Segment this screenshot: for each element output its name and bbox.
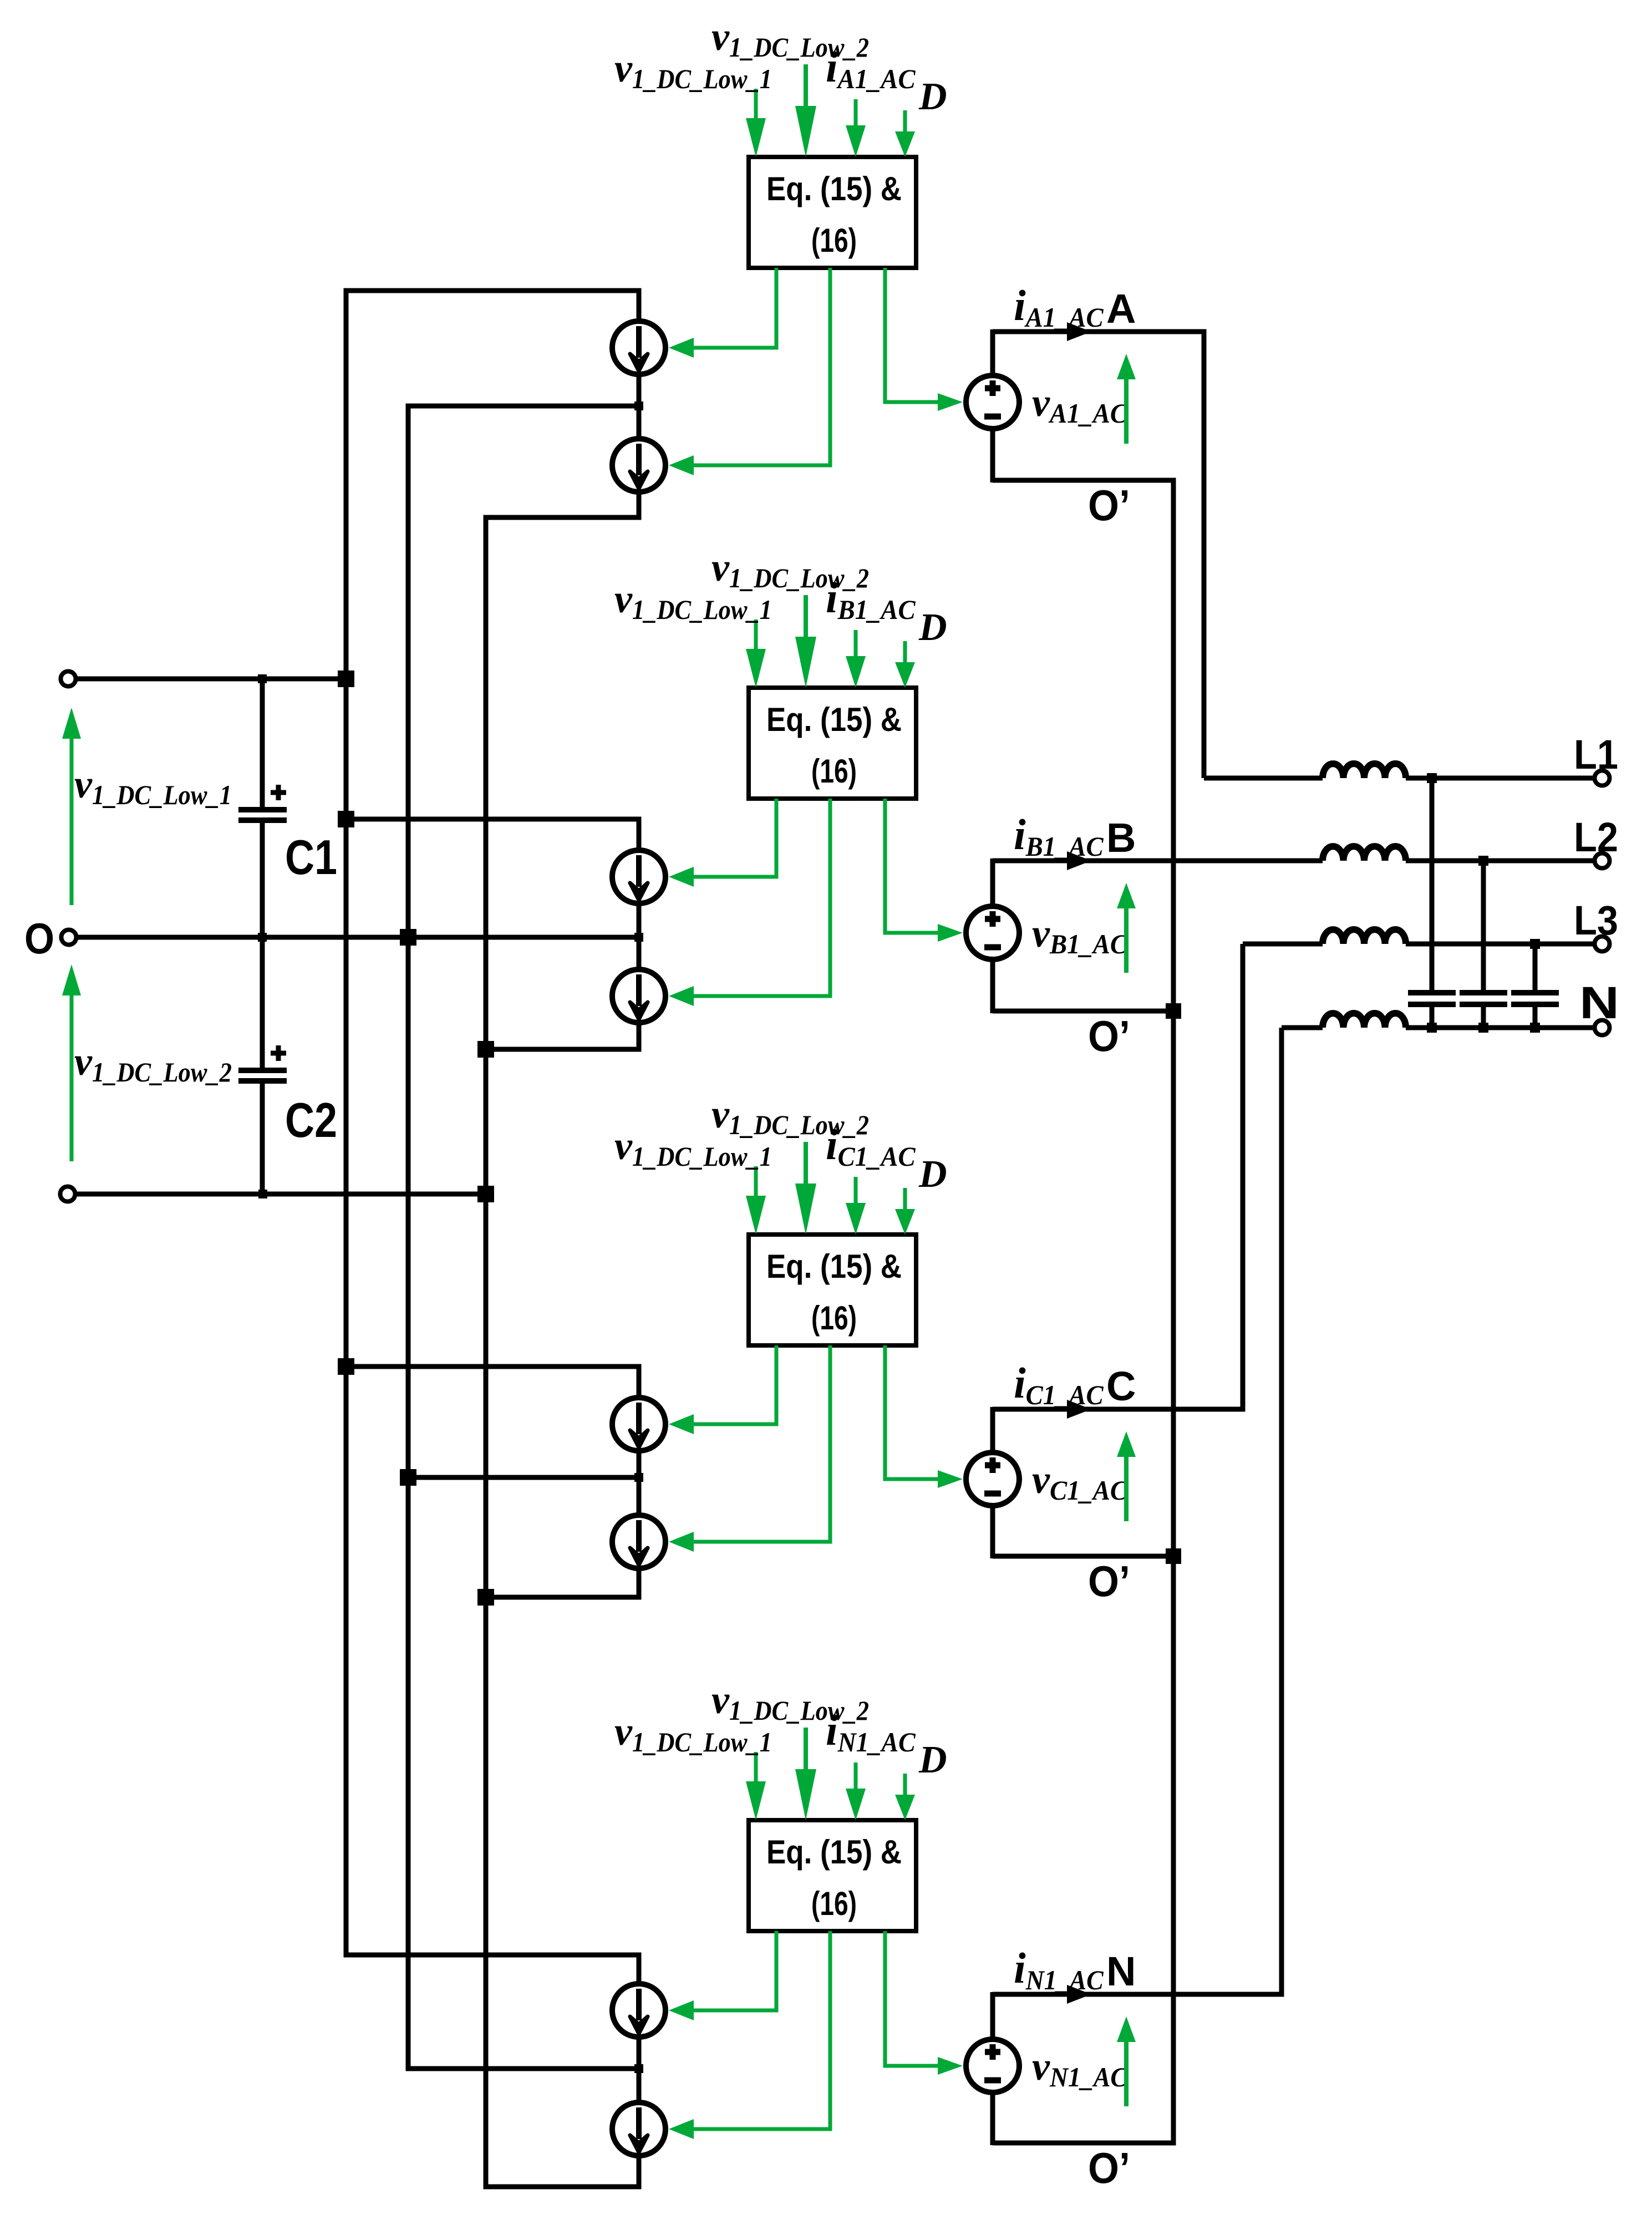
junction DC+ rail / bus bbox=[338, 670, 354, 687]
wire corner patches bbox=[344, 288, 349, 293]
junction DC+ bus phase C bbox=[338, 1358, 354, 1375]
input v_1_DC_Low_2 arrow phase B bbox=[804, 595, 808, 643]
wire phase C output to L3 bbox=[993, 944, 1243, 1409]
svg-text:L2: L2 bbox=[1574, 814, 1618, 860]
svg-text:C2: C2 bbox=[285, 1093, 337, 1147]
wire CS mid phase C bbox=[408, 1451, 639, 1515]
arrow v_1_DC_Low_1 (DC link) bbox=[70, 739, 74, 905]
wire O rail bbox=[76, 935, 639, 940]
svg-text:D: D bbox=[918, 606, 947, 649]
svg-text:(16): (16) bbox=[811, 222, 857, 259]
wire L1 row bbox=[1204, 776, 1594, 781]
svg-text:L3: L3 bbox=[1574, 897, 1618, 943]
arrow v_1_DC_Low_2 (DC link) bbox=[70, 995, 74, 1161]
svg-text:L1: L1 bbox=[1574, 732, 1618, 778]
filter capacitor 3 bbox=[1511, 944, 1559, 1028]
wire CS mid phase N bbox=[408, 2037, 639, 2102]
junction O' phase B bbox=[1166, 1003, 1181, 1019]
input i_C1_AC arrow phase C bbox=[854, 1177, 858, 1208]
green arrow v_A1_AC phase A bbox=[1124, 379, 1129, 444]
wire CS top phase C bbox=[346, 1367, 639, 1398]
current source CS1 phase C bbox=[612, 1398, 665, 1451]
inductor N bbox=[1323, 1013, 1406, 1028]
terminal DC+ bbox=[61, 672, 76, 687]
green wire to CS1 phase C bbox=[693, 1345, 776, 1424]
filter capacitor 2 bbox=[1460, 861, 1507, 1028]
current arrow i_N1_AC phase N bbox=[1067, 1985, 1091, 2004]
junction CS mid phase A bbox=[634, 402, 643, 410]
svg-text:N: N bbox=[1106, 1948, 1136, 1994]
green wire to VS phase A bbox=[885, 268, 938, 402]
wire VS bottom stub phase B bbox=[990, 958, 995, 1013]
wire VS top stub phase A bbox=[990, 329, 995, 377]
current source CS1 phase A bbox=[612, 321, 665, 374]
wire DC- rail bbox=[75, 1192, 486, 1197]
wire CS bottom phase N bbox=[486, 2156, 639, 2187]
junction DC- bus phase C bbox=[477, 1589, 494, 1606]
input i_B1_AC arrow phase B bbox=[854, 630, 858, 661]
terminal O bbox=[62, 930, 77, 945]
wire O' bus bbox=[1171, 480, 1176, 2143]
terminal N bbox=[1595, 1020, 1610, 1035]
voltage source v_A1_AC phase A bbox=[966, 375, 1019, 429]
input v_1_DC_Low_1 arrow phase B bbox=[754, 619, 758, 654]
svg-text:Eq. (15) &: Eq. (15) & bbox=[766, 1833, 902, 1871]
current source CS1 phase N bbox=[612, 1984, 665, 2037]
wire phase B O' link bbox=[993, 1009, 1173, 1014]
junction DC- rail / C2 bbox=[258, 1190, 267, 1198]
input i_A1_AC arrow phase A bbox=[854, 99, 858, 130]
green arrow v_B1_AC phase B bbox=[1124, 908, 1129, 973]
green arrow v_C1_AC phase C bbox=[1124, 1457, 1129, 1521]
green wire to CS2 phase B bbox=[693, 799, 830, 996]
green wire to CS1 phase B bbox=[693, 799, 776, 877]
svg-text:N: N bbox=[1579, 978, 1619, 1028]
wire DC- bus bbox=[484, 517, 489, 2187]
junction N / filter cap 2 bbox=[1478, 1023, 1488, 1033]
svg-text:O: O bbox=[24, 914, 54, 963]
wire CS mid phase A bbox=[408, 374, 639, 439]
terminal L3 bbox=[1595, 937, 1610, 952]
green arrow v_N1_AC phase N bbox=[1124, 2042, 1129, 2106]
current arrow i_A1_AC phase A bbox=[1067, 322, 1091, 341]
input v_1_DC_Low_2 arrow phase C bbox=[804, 1142, 808, 1190]
junction O rail / O bus bbox=[400, 929, 416, 946]
svg-text:Eq. (15) &: Eq. (15) & bbox=[766, 701, 902, 738]
input v_1_DC_Low_1 arrow phase N bbox=[754, 1752, 758, 1787]
junction O rail / C1 C2 bbox=[258, 933, 267, 942]
Eq box phase B bbox=[749, 688, 916, 799]
wire N row bbox=[1282, 1025, 1594, 1030]
wire VS top stub phase N bbox=[990, 1992, 995, 2040]
junction DC+ bus phase B bbox=[338, 811, 354, 827]
svg-text:O’: O’ bbox=[1088, 1557, 1130, 1606]
wire CS bottom phase B bbox=[486, 1023, 639, 1049]
wire CS top phase A bbox=[346, 291, 639, 321]
terminal DC- bbox=[60, 1187, 75, 1202]
Eq box phase A bbox=[749, 157, 916, 268]
wire L2 row bbox=[1406, 859, 1594, 863]
junction N / filter cap 1 bbox=[1427, 1023, 1437, 1033]
input v_1_DC_Low_1 arrow phase A bbox=[754, 89, 758, 124]
green wire to CS2 phase A bbox=[693, 268, 830, 465]
svg-text:O’: O’ bbox=[1088, 1012, 1130, 1060]
junction CS mid phase B bbox=[634, 933, 643, 942]
junction L2 / filter cap 2 bbox=[1478, 856, 1488, 866]
current arrow i_C1_AC phase C bbox=[1067, 1400, 1091, 1419]
svg-text:B: B bbox=[1106, 815, 1136, 861]
current source CS2 phase N bbox=[612, 2102, 665, 2156]
wire phase B output (L2 row start) bbox=[993, 859, 1323, 863]
svg-text:Eq. (15) &: Eq. (15) & bbox=[766, 1248, 902, 1285]
voltage source v_C1_AC phase C bbox=[966, 1452, 1019, 1506]
junction CS mid phase N bbox=[634, 2064, 643, 2073]
svg-text:D: D bbox=[918, 1739, 947, 1781]
junction L3 / filter cap 3 bbox=[1530, 939, 1540, 949]
current source CS2 phase B bbox=[612, 969, 665, 1023]
terminal L2 bbox=[1595, 854, 1610, 868]
input D arrow phase A bbox=[903, 110, 907, 135]
wire L3 row bbox=[1243, 942, 1594, 947]
terminal L1 bbox=[1595, 771, 1610, 786]
svg-text:C: C bbox=[1106, 1363, 1136, 1409]
svg-text:Eq. (15) &: Eq. (15) & bbox=[766, 170, 902, 207]
inductor L3 bbox=[1323, 929, 1406, 944]
junction DC- rail / bus bbox=[477, 1186, 494, 1202]
junction L1 / filter cap 1 bbox=[1427, 773, 1437, 783]
junction O' phase C bbox=[1166, 1548, 1181, 1564]
wire phase N O' link bbox=[993, 2141, 1173, 2146]
filter capacitor 1 bbox=[1408, 778, 1456, 1028]
input v_1_DC_Low_2 arrow phase A bbox=[804, 64, 808, 113]
svg-text:(16): (16) bbox=[811, 753, 857, 790]
current source CS2 phase A bbox=[612, 439, 665, 492]
svg-text:A: A bbox=[1106, 286, 1136, 332]
wire DC+ bus bbox=[344, 291, 349, 1955]
green wire to VS phase C bbox=[885, 1345, 938, 1479]
junction O bus phase C bbox=[400, 1469, 416, 1486]
input D arrow phase N bbox=[903, 1774, 907, 1798]
current source CS2 phase C bbox=[612, 1515, 665, 1568]
capacitor C2 bbox=[238, 937, 287, 1194]
svg-text:C1: C1 bbox=[285, 830, 337, 885]
wire VS top stub phase B bbox=[990, 859, 995, 907]
wire CS top phase B bbox=[346, 819, 639, 850]
voltage source v_B1_AC phase B bbox=[966, 906, 1019, 959]
green wire to VS phase N bbox=[885, 1931, 938, 2066]
voltage source v_N1_AC phase N bbox=[966, 2039, 1019, 2092]
svg-text:(16): (16) bbox=[811, 1885, 857, 1922]
green wire to CS2 phase C bbox=[693, 1345, 830, 1542]
wire CS mid phase B bbox=[408, 903, 639, 969]
svg-text:(16): (16) bbox=[811, 1299, 857, 1337]
input v_1_DC_Low_1 arrow phase C bbox=[754, 1166, 758, 1201]
junction DC+ rail / C1 bbox=[258, 674, 267, 683]
wire VS top stub phase C bbox=[990, 1407, 995, 1454]
wire DC+ rail bbox=[75, 677, 346, 682]
input v_1_DC_Low_2 arrow phase N bbox=[804, 1728, 808, 1776]
input i_N1_AC arrow phase N bbox=[854, 1762, 858, 1794]
svg-text:D: D bbox=[918, 1153, 947, 1196]
wire phase A O' link bbox=[993, 478, 1173, 483]
Eq box phase N bbox=[749, 1820, 916, 1931]
wire phase A output to L1 bbox=[993, 332, 1204, 778]
green wire to CS1 phase A bbox=[693, 268, 776, 348]
wire VS bottom stub phase N bbox=[990, 2091, 995, 2145]
junction N / filter cap 3 bbox=[1530, 1023, 1540, 1033]
inductor L1 bbox=[1323, 764, 1406, 778]
wire phase C O' link bbox=[993, 1554, 1173, 1559]
input D arrow phase B bbox=[903, 641, 907, 666]
wire VS bottom stub phase C bbox=[990, 1505, 995, 1558]
wire O bus bbox=[406, 406, 411, 2069]
wire CS bottom phase C bbox=[486, 1568, 639, 1597]
green wire to CS2 phase N bbox=[693, 1931, 830, 2129]
inductor L2 bbox=[1323, 846, 1406, 861]
wire CS bottom phase A bbox=[486, 492, 639, 517]
current source CS1 phase B bbox=[612, 850, 665, 903]
input D arrow phase C bbox=[903, 1188, 907, 1212]
capacitor C1 bbox=[238, 679, 287, 937]
svg-text:D: D bbox=[918, 75, 947, 118]
junction DC- bus phase B bbox=[477, 1041, 494, 1058]
wire phase N output to N row bbox=[993, 1028, 1282, 1994]
wire CS top phase N bbox=[346, 1955, 639, 1984]
svg-text:O’: O’ bbox=[1088, 481, 1130, 530]
wire VS bottom stub phase A bbox=[990, 428, 995, 482]
Eq box phase C bbox=[749, 1235, 916, 1345]
junction CS mid phase C bbox=[634, 1473, 643, 1482]
current arrow i_B1_AC phase B bbox=[1067, 851, 1091, 870]
green wire to VS phase B bbox=[885, 799, 938, 933]
green wire to CS1 phase N bbox=[693, 1931, 776, 2010]
svg-text:O’: O’ bbox=[1088, 2143, 1130, 2192]
